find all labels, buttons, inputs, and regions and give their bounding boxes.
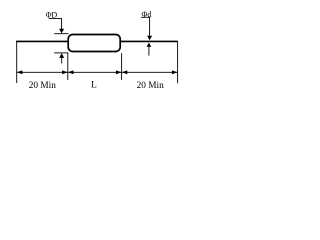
Φd bottom arrow (points up to lead bottom) [147, 43, 152, 47]
svg-text:L: L [91, 81, 97, 91]
dimension arrowhead pointing right at right lead end [172, 70, 178, 74]
extension line at body left [67, 53, 69, 80]
extension line at right lead end [177, 42, 179, 83]
ΦD top arrow (points down to body top) [59, 29, 64, 34]
ΦD bottom tick at body bottom [54, 52, 68, 54]
leader line for Φd [141, 17, 150, 36]
dimension arrowhead pointing left at body left [68, 70, 74, 74]
svg-text:20 Min: 20 Min [137, 81, 164, 91]
dimension line [17, 71, 178, 73]
right lead wire [120, 40, 178, 42]
svg-text:20 Min: 20 Min [29, 81, 56, 91]
leader line for ΦD [49, 19, 62, 30]
dimension arrowhead pointing right at body right [116, 70, 122, 74]
ΦD top tick at body top [54, 33, 68, 35]
Φd top arrow (points down to lead top) [147, 36, 152, 41]
dimension arrowhead pointing left at left lead end [17, 70, 23, 74]
extension line at body right [121, 53, 123, 80]
component body (rounded rectangle) [68, 35, 120, 52]
dimension arrowhead pointing left at body right [122, 70, 128, 74]
dimension arrowhead pointing right at body left [62, 70, 68, 74]
extension line at left lead end [16, 42, 18, 83]
left lead wire [16, 40, 69, 42]
ΦD bottom arrow (points up to body bottom) [59, 53, 64, 58]
